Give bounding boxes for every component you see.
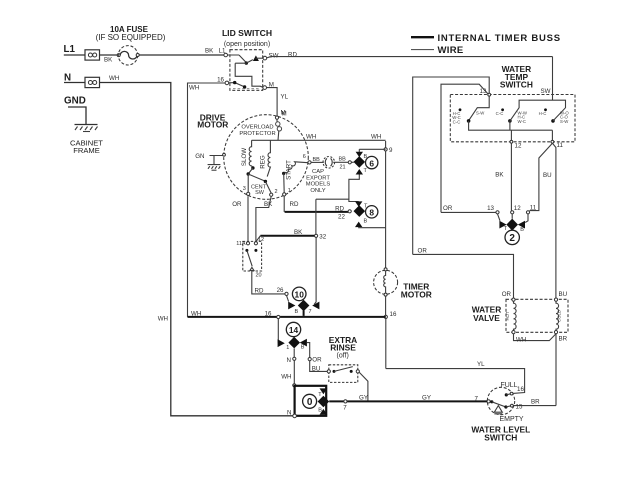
- svg-text:11: 11: [557, 142, 564, 149]
- svg-text:12: 12: [514, 205, 521, 212]
- svg-text:WIRE: WIRE: [438, 45, 464, 56]
- svg-text:21: 21: [340, 165, 346, 171]
- svg-text:C-C: C-C: [496, 111, 504, 116]
- svg-text:BK: BK: [104, 57, 113, 64]
- svg-text:EMPTY: EMPTY: [499, 416, 523, 423]
- svg-text:PROTECTOR: PROTECTOR: [239, 131, 275, 137]
- svg-text:3: 3: [243, 186, 246, 192]
- svg-text:B: B: [295, 309, 299, 315]
- svg-text:6: 6: [303, 154, 306, 160]
- svg-text:1: 1: [286, 345, 289, 351]
- svg-text:WH: WH: [189, 85, 199, 92]
- svg-text:N: N: [287, 357, 291, 364]
- svg-text:WH: WH: [371, 134, 381, 141]
- svg-text:B: B: [364, 219, 368, 225]
- svg-text:32: 32: [319, 234, 326, 241]
- svg-text:MOTOR: MOTOR: [197, 119, 228, 129]
- svg-text:BU: BU: [312, 365, 321, 372]
- svg-text:MODELS: MODELS: [306, 182, 331, 188]
- svg-text:BR: BR: [559, 336, 568, 343]
- svg-text:FRAME: FRAME: [73, 146, 100, 155]
- svg-text:16: 16: [517, 386, 524, 393]
- svg-text:(IF SO EQUIPPED): (IF SO EQUIPPED): [96, 33, 166, 42]
- svg-text:HOT: HOT: [505, 311, 510, 320]
- svg-text:13: 13: [480, 88, 487, 95]
- svg-text:(open position): (open position): [224, 41, 270, 48]
- svg-text:SW: SW: [255, 190, 265, 196]
- svg-text:CAP: CAP: [312, 169, 324, 175]
- svg-text:BK: BK: [205, 48, 214, 55]
- svg-text:15: 15: [516, 403, 523, 410]
- svg-text:SW: SW: [269, 53, 279, 60]
- svg-text:WH: WH: [306, 134, 316, 141]
- svg-text:GN: GN: [195, 153, 204, 160]
- svg-text:RD: RD: [288, 51, 297, 58]
- svg-text:BB: BB: [313, 157, 321, 163]
- svg-text:6: 6: [369, 158, 374, 168]
- svg-text:11A: 11A: [236, 241, 246, 247]
- svg-text:20: 20: [256, 273, 262, 279]
- svg-text:S-W: S-W: [560, 119, 569, 124]
- svg-text:SLOW: SLOW: [241, 148, 248, 166]
- svg-text:16: 16: [390, 311, 397, 318]
- svg-text:1: 1: [288, 188, 291, 194]
- svg-text:OR: OR: [312, 357, 322, 364]
- svg-text:SWITCH: SWITCH: [500, 79, 533, 89]
- svg-text:ONLY: ONLY: [310, 188, 325, 194]
- svg-text:YL: YL: [281, 94, 289, 101]
- svg-text:MOTOR: MOTOR: [401, 290, 432, 300]
- svg-text:S-W: S-W: [476, 111, 485, 116]
- svg-text:22: 22: [338, 213, 345, 220]
- svg-text:B: B: [301, 345, 305, 351]
- svg-text:8: 8: [369, 208, 374, 218]
- svg-text:11: 11: [530, 205, 537, 212]
- svg-text:REG: REG: [259, 155, 266, 169]
- svg-text:BU: BU: [559, 291, 568, 298]
- svg-text:OR: OR: [443, 205, 453, 212]
- svg-text:GY: GY: [422, 394, 431, 401]
- svg-text:BK: BK: [495, 172, 504, 179]
- svg-text:BB: BB: [339, 157, 347, 163]
- svg-text:12: 12: [515, 143, 522, 150]
- svg-text:GND: GND: [64, 96, 86, 107]
- svg-text:WH: WH: [516, 337, 526, 344]
- svg-text:L1: L1: [64, 44, 76, 55]
- svg-text:N: N: [64, 72, 71, 83]
- svg-text:16: 16: [265, 311, 272, 318]
- svg-text:INTERNAL TIMER BUSS: INTERNAL TIMER BUSS: [438, 33, 561, 44]
- svg-text:YL: YL: [477, 361, 485, 368]
- svg-text:VALVE: VALVE: [473, 313, 500, 323]
- svg-text:BR: BR: [531, 399, 540, 406]
- svg-text:OVERLOAD: OVERLOAD: [241, 125, 273, 131]
- svg-text:OR: OR: [502, 291, 512, 298]
- svg-text:COLD: COLD: [557, 310, 562, 322]
- svg-text:WH: WH: [281, 374, 291, 381]
- svg-text:SW: SW: [541, 88, 551, 95]
- svg-text:WH: WH: [158, 315, 168, 322]
- svg-text:7: 7: [343, 405, 347, 412]
- svg-text:SWITCH: SWITCH: [484, 432, 517, 442]
- svg-text:OR: OR: [418, 247, 428, 254]
- svg-text:RD: RD: [290, 201, 299, 208]
- svg-text:RD: RD: [335, 206, 344, 213]
- svg-text:RD: RD: [255, 288, 264, 295]
- svg-text:2: 2: [509, 233, 515, 244]
- svg-text:13: 13: [487, 205, 494, 212]
- svg-text:GY: GY: [359, 394, 368, 401]
- svg-text:H-C: H-C: [539, 111, 547, 116]
- svg-text:N: N: [287, 409, 291, 416]
- svg-text:0: 0: [307, 397, 313, 408]
- svg-text:FULL: FULL: [500, 382, 517, 389]
- svg-text:WH: WH: [109, 75, 119, 82]
- svg-text:7: 7: [309, 309, 312, 315]
- svg-text:B: B: [520, 227, 524, 233]
- svg-text:W-C: W-C: [518, 119, 527, 124]
- svg-text:26: 26: [277, 287, 284, 294]
- svg-text:9: 9: [389, 147, 393, 154]
- svg-text:LID SWITCH: LID SWITCH: [222, 28, 272, 38]
- svg-text:BK: BK: [294, 229, 303, 236]
- svg-text:M: M: [282, 111, 287, 118]
- svg-text:16: 16: [217, 77, 224, 84]
- svg-text:BU: BU: [543, 172, 552, 179]
- svg-text:C-C: C-C: [453, 119, 461, 124]
- svg-text:14: 14: [289, 325, 299, 335]
- svg-text:(off): (off): [337, 352, 349, 359]
- svg-text:EXPORT: EXPORT: [306, 175, 330, 181]
- svg-text:2: 2: [275, 189, 278, 195]
- svg-text:10: 10: [295, 290, 305, 300]
- svg-text:RINSE: RINSE: [330, 343, 356, 353]
- svg-text:OR: OR: [232, 201, 242, 208]
